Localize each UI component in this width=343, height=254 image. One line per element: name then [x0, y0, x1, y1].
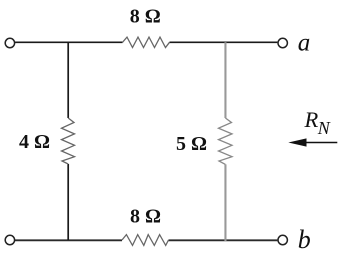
svg-text:8 Ω: 8 Ω [130, 206, 161, 228]
svg-text:b: b [298, 225, 311, 254]
svg-text:4 Ω: 4 Ω [19, 131, 50, 153]
svg-text:8 Ω: 8 Ω [130, 6, 161, 28]
svg-text:N: N [317, 118, 331, 138]
svg-text:R: R [304, 107, 319, 132]
svg-text:a: a [298, 29, 311, 56]
svg-text:5 Ω: 5 Ω [176, 133, 207, 155]
